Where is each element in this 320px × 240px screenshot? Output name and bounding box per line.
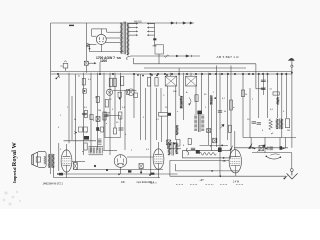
wire wire under box bbox=[170, 159, 229, 161]
inductor choke L11b bbox=[281, 119, 283, 129]
label value label 26 bbox=[252, 99, 254, 101]
footer marks bbox=[176, 183, 244, 185]
wire U1 right loop v bbox=[106, 29, 108, 32]
resistor R9b bbox=[113, 78, 116, 86]
junction row 148 dot bbox=[252, 147, 254, 149]
wire HT line bbox=[154, 23, 156, 46]
svg-text:3: 3 bbox=[112, 109, 114, 111]
junction rail dot c bbox=[149, 174, 151, 176]
wire drop 150 bbox=[150, 74, 152, 174]
wire col 179 bbox=[178, 68, 180, 96]
wire drop 280 bbox=[279, 138, 281, 147]
label +6V label bbox=[199, 179, 204, 182]
wire U1 to coil tap2 bbox=[106, 37, 121, 39]
wire sec tap r6 bbox=[147, 27, 155, 29]
wire link 104-110 bbox=[104, 112, 110, 114]
label value label 0 bbox=[78, 76, 81, 78]
junction bus joint 17 bbox=[234, 73, 236, 75]
wire sec tap r2 bbox=[129, 27, 138, 29]
wire gnd drop bbox=[291, 153, 293, 169]
svg-text:3: 3 bbox=[58, 127, 60, 129]
choke coil inside bbox=[199, 153, 216, 156]
resistor R11 bbox=[195, 95, 198, 102]
wire top link wire bbox=[113, 90, 137, 92]
label value label 33 bbox=[156, 119, 160, 121]
wire col 268 bbox=[267, 73, 269, 118]
resistor R16 bbox=[273, 92, 279, 95]
variable capacitor cap C16 bbox=[167, 140, 171, 145]
ground symbol bbox=[287, 171, 298, 179]
svg-text:1: 1 bbox=[213, 92, 215, 94]
curly symbol bbox=[186, 148, 189, 155]
wire mid bottom wire bbox=[176, 170, 239, 172]
wire trimmer stub bbox=[85, 65, 87, 73]
label value label 12 bbox=[116, 122, 119, 124]
wire col 263 bbox=[262, 73, 264, 95]
label value label 22 bbox=[205, 107, 207, 109]
wire U1 bottom lead bbox=[100, 44, 102, 51]
core L8 bbox=[89, 147, 104, 155]
capacitor C7 bbox=[218, 111, 222, 112]
tick TR on top rail bbox=[69, 24, 74, 26]
inductor speaker transformer La bbox=[48, 154, 50, 168]
label value label 24 bbox=[233, 107, 235, 109]
label value label 28 bbox=[283, 111, 285, 113]
junction rail dot a bbox=[57, 173, 59, 175]
label value label 37 bbox=[131, 150, 133, 152]
junction bus joint 26 bbox=[285, 73, 287, 75]
small box mid-left bbox=[101, 127, 104, 132]
junction bus joint 2 bbox=[99, 73, 101, 75]
wire B+ left stub up bbox=[133, 58, 135, 64]
label value label 7 bbox=[122, 107, 126, 109]
label value label 14 bbox=[163, 95, 165, 97]
svg-text:0,1: 0,1 bbox=[222, 98, 226, 100]
comp box c bbox=[134, 93, 138, 97]
inductor IF coil L8 bbox=[89, 148, 95, 154]
label V5 label bbox=[223, 160, 226, 163]
resistor R13 bbox=[228, 125, 231, 132]
svg-text:w: w bbox=[233, 107, 235, 109]
label value label 30 bbox=[262, 130, 264, 132]
wire vert 175 bbox=[175, 164, 177, 171]
wire col 91 bbox=[90, 73, 92, 152]
blob above T2 bbox=[197, 111, 201, 115]
wire trimmer arrow lead bbox=[88, 62, 94, 64]
wire col 166 foot bbox=[168, 148, 182, 150]
wire col 243 bbox=[242, 73, 244, 138]
label value label 16 bbox=[186, 91, 188, 94]
label AM BET bbox=[217, 55, 240, 59]
dark cap 2 bbox=[218, 148, 222, 153]
svg-text:x: x bbox=[177, 111, 179, 113]
svg-text:7: 7 bbox=[67, 107, 69, 109]
wire col 277 bbox=[276, 73, 278, 118]
resistor R1 bbox=[82, 79, 85, 86]
junction bus joint 19 bbox=[248, 73, 250, 75]
svg-text:a: a bbox=[106, 123, 108, 125]
blob row148 bbox=[280, 146, 283, 150]
svg-text:12: 12 bbox=[269, 88, 272, 90]
core La bbox=[50, 154, 52, 168]
wire U1 left lead bbox=[90, 44, 97, 46]
junction bus joint 13 bbox=[209, 73, 211, 75]
tube V4 IF tube bbox=[153, 149, 164, 169]
label bottom left label bbox=[43, 182, 64, 185]
label value label 39 bbox=[183, 145, 185, 147]
label value label 44 bbox=[58, 127, 60, 129]
svg-text:pF: pF bbox=[271, 133, 274, 135]
wire col 216 bbox=[215, 66, 217, 148]
junction solder dot d bbox=[156, 75, 158, 77]
arrow arrow row148 bbox=[282, 147, 285, 149]
resistor mains R0 bbox=[87, 43, 90, 47]
wire rail 3 bbox=[54, 177, 160, 179]
title Imperial Royal W bbox=[11, 142, 18, 183]
svg-text:5k: 5k bbox=[224, 111, 227, 113]
inductor output transformer L7 bbox=[176, 143, 178, 155]
inductor coil L10 bbox=[277, 97, 279, 104]
junction bus joint 7 bbox=[164, 73, 166, 75]
resistor R10 bbox=[119, 112, 122, 119]
svg-text:Imperial Royal W: Imperial Royal W bbox=[11, 142, 18, 183]
junction rail dot b bbox=[118, 173, 120, 175]
wire drop 140 bbox=[140, 74, 142, 140]
label value label 32 bbox=[287, 130, 290, 132]
wire left rail bbox=[50, 23, 52, 174]
label lamp label 70 bbox=[60, 66, 63, 68]
junction grid wire joint bbox=[221, 145, 223, 147]
resistor R8 bbox=[121, 77, 124, 86]
junction blob b bbox=[106, 169, 108, 171]
capacitor C11 bbox=[257, 123, 261, 124]
wire C5 stub bbox=[190, 73, 192, 76]
resistor R19 bbox=[188, 139, 191, 145]
tube V5 AF tube bbox=[229, 150, 241, 173]
inductor output transformer L6 bbox=[168, 143, 170, 156]
wire R0 bottom wire bbox=[89, 45, 91, 52]
svg-text:30: 30 bbox=[204, 94, 207, 96]
wire HT box to bus bbox=[158, 54, 160, 64]
wire U1 top lead bbox=[100, 29, 102, 35]
wire bus B+ mid bbox=[144, 67, 246, 69]
junction bus joint 5 bbox=[149, 73, 151, 75]
variable capacitor cap C6b bbox=[213, 138, 217, 143]
label value label 40 bbox=[210, 146, 212, 148]
label value label 2 bbox=[95, 97, 98, 99]
gnd circle bbox=[290, 169, 293, 172]
wire sec tap r1 bbox=[129, 23, 138, 25]
wire col 259 bbox=[258, 73, 260, 118]
label 1,4 label bbox=[233, 181, 240, 184]
label 1200 label bbox=[100, 59, 107, 63]
capacitor C1 bbox=[82, 113, 87, 114]
resistor R12 bbox=[159, 113, 168, 117]
wire col 211 bbox=[210, 105, 212, 151]
wire bus B+ upper bbox=[134, 63, 256, 65]
svg-text:0,5: 0,5 bbox=[84, 107, 88, 109]
wire drop 145 bbox=[144, 88, 146, 140]
arrow aerial 2 bbox=[186, 55, 192, 57]
label HM label bbox=[121, 181, 126, 184]
label value label 5 bbox=[98, 110, 101, 112]
label value label 21 bbox=[177, 111, 179, 113]
label value label 43 bbox=[74, 119, 77, 121]
wire col 125 bbox=[124, 90, 126, 150]
speaker bbox=[31, 151, 46, 167]
resistor R14 bbox=[230, 100, 233, 110]
label value label 3 bbox=[109, 99, 112, 101]
label value label 10 bbox=[86, 132, 88, 134]
svg-text:0,5: 0,5 bbox=[270, 109, 274, 111]
label value label 23 bbox=[224, 111, 227, 113]
wire V4 bottom lead bbox=[158, 169, 160, 177]
junction bus joint 14 bbox=[215, 73, 217, 75]
wire sec tap r7 bbox=[147, 30, 155, 32]
wire col 72 bbox=[71, 96, 73, 140]
svg-text:9: 9 bbox=[143, 117, 145, 119]
junction bottom long dot bbox=[219, 175, 221, 177]
wire col 104 bbox=[103, 73, 105, 150]
inductor coil L12 bbox=[268, 146, 273, 150]
arrow mains lead 1 bbox=[171, 22, 177, 24]
label mps label bbox=[137, 181, 155, 184]
HT tick bbox=[153, 45, 157, 47]
label value label 9 bbox=[106, 123, 108, 125]
tube U1 rectifier bbox=[96, 34, 106, 44]
inductor choke L11 bbox=[276, 119, 278, 129]
bottom arrow right bbox=[283, 175, 288, 180]
label value label 19 bbox=[222, 98, 226, 100]
svg-text:8: 8 bbox=[183, 145, 185, 147]
junction solder dot b bbox=[142, 75, 144, 77]
wire col 110 bbox=[109, 73, 111, 155]
capacitor C15 bbox=[191, 148, 195, 149]
wire stub right corner bbox=[256, 88, 265, 90]
junction blob a bbox=[94, 165, 96, 167]
svg-text:1M: 1M bbox=[98, 110, 101, 112]
junction dot right of C12 bbox=[265, 148, 267, 150]
wire bottom long wire bbox=[170, 175, 286, 177]
svg-text:1.4 W: 1.4 W bbox=[233, 181, 240, 184]
junction antenna junction bbox=[291, 72, 293, 74]
switch S1 bbox=[270, 154, 279, 155]
wire sec tap r3 bbox=[129, 30, 138, 32]
wire stub above bus bbox=[99, 62, 101, 73]
wire wire above IF bbox=[64, 140, 97, 142]
arrow diag mid bbox=[230, 145, 234, 151]
svg-text:2: 2 bbox=[205, 107, 207, 109]
svg-text:3: 3 bbox=[283, 111, 285, 113]
svg-text:2: 2 bbox=[267, 81, 269, 83]
comp box b bbox=[126, 90, 129, 95]
resistor R9 bbox=[109, 78, 112, 86]
wire drop 156 bbox=[155, 88, 157, 140]
svg-text:1k: 1k bbox=[245, 94, 248, 96]
wire bus main lower bbox=[51, 73, 293, 75]
label value label 29 bbox=[247, 119, 250, 121]
speckle corner bbox=[3, 191, 21, 206]
IF transformer T2 bbox=[194, 114, 204, 132]
svg-text:1200: 1200 bbox=[100, 59, 107, 63]
junction bus joint 18 bbox=[242, 73, 244, 75]
wire col 75 bbox=[74, 74, 76, 163]
box near C16 bbox=[177, 140, 181, 147]
junction bus joint 11 bbox=[195, 73, 197, 75]
svg-text:50: 50 bbox=[109, 99, 112, 101]
comp cluster a bbox=[118, 92, 122, 99]
junction choke box dot bbox=[223, 157, 225, 159]
svg-text:A: A bbox=[186, 91, 188, 94]
label value label 18 bbox=[213, 92, 215, 94]
wire col 166 bbox=[167, 86, 169, 149]
dark cap bbox=[196, 150, 200, 154]
wire drop from top rail bbox=[85, 23, 87, 61]
junction dot under C17 bbox=[140, 171, 142, 173]
junction bus joint 20 bbox=[252, 73, 254, 75]
label value label 42 bbox=[67, 107, 69, 109]
trim arrow mid bbox=[220, 124, 224, 128]
wire col 228 bbox=[227, 73, 229, 140]
variable capacitor cap C17 bbox=[139, 164, 143, 169]
label value label 34 bbox=[143, 117, 145, 119]
label value label 13 bbox=[125, 134, 127, 136]
HT junction blob bbox=[153, 38, 156, 40]
label value label 41 bbox=[60, 115, 62, 117]
inductor IF coil L9 bbox=[97, 148, 103, 154]
wire drop 285 bbox=[284, 138, 286, 149]
label value label 27 bbox=[270, 109, 274, 111]
svg-text:2: 2 bbox=[86, 132, 88, 134]
variable capacitor cap C12 bbox=[259, 146, 263, 151]
svg-text:AM 5 BET 1 Ω: AM 5 BET 1 Ω bbox=[217, 55, 240, 59]
junction bus joint 6 bbox=[157, 73, 159, 75]
junction bus joint 22 bbox=[262, 73, 264, 75]
lamp M box bbox=[63, 61, 68, 68]
wire vert left of box bbox=[169, 160, 171, 176]
wire V3 bottom lead bbox=[120, 167, 122, 174]
resistor R2 bbox=[90, 115, 93, 120]
wire drop 134 bbox=[133, 74, 135, 118]
resistor R5 bbox=[103, 112, 106, 120]
wire V4 top lead bbox=[158, 142, 160, 149]
svg-text:14F: 14F bbox=[121, 181, 126, 184]
wire U1 to coil tap3 bbox=[106, 42, 121, 44]
wire col 115 bbox=[114, 73, 116, 128]
cathode resistor marks bbox=[74, 131, 77, 134]
zigzag resistor R17 bbox=[269, 119, 273, 130]
small boxes bottom left bbox=[79, 127, 88, 132]
svg-text:10: 10 bbox=[247, 119, 250, 121]
module box bbox=[105, 115, 120, 137]
wire V5 top lead bbox=[234, 131, 236, 150]
wire spk drop right bbox=[58, 143, 60, 171]
label value label 38 bbox=[146, 149, 150, 151]
junction bus joint 15 bbox=[221, 73, 223, 75]
resistor R20 bbox=[105, 100, 108, 108]
wire U1 loop bottom stub bbox=[92, 35, 97, 37]
label cap label 2 bbox=[267, 81, 269, 83]
wire R12 drop bbox=[160, 116, 162, 142]
variable capacitor cap C6 bbox=[207, 129, 211, 133]
aerial start curve bbox=[127, 56, 131, 60]
variable capacitor cap X left bbox=[96, 117, 100, 122]
tap ticks left group bbox=[136, 23, 138, 36]
label cap label 12 bbox=[269, 88, 272, 90]
label value label 15 bbox=[173, 91, 177, 93]
wire V2 to V3 wire bbox=[72, 160, 85, 162]
label value label 11 bbox=[99, 130, 101, 132]
junction bus joint 1 bbox=[57, 73, 59, 75]
wire col 208 bbox=[207, 73, 209, 145]
resistor R4 bbox=[85, 111, 88, 118]
R12 terminal bbox=[168, 113, 171, 116]
junction bus joint 16 bbox=[227, 73, 229, 75]
wire sec tap r5 bbox=[147, 23, 155, 25]
inductor coil L14 bbox=[176, 125, 178, 135]
wire U1 loop left bbox=[91, 29, 93, 36]
label value label 20 bbox=[165, 107, 168, 109]
svg-text:wpm 3: wpm 3 bbox=[150, 183, 157, 185]
svg-text:14M23MH M 072 2: 14M23MH M 072 2 bbox=[43, 182, 64, 185]
antenna bbox=[288, 58, 294, 74]
wire U1 to coil tap1 bbox=[107, 31, 121, 33]
variable capacitor cap C14 bbox=[73, 163, 77, 170]
core L6 bbox=[172, 142, 173, 156]
resistor R15 bbox=[241, 90, 244, 97]
wire C4 stub bbox=[170, 73, 172, 76]
junction bus joint 25 bbox=[281, 73, 283, 75]
trimmer with dot bbox=[83, 89, 87, 93]
tube V2 output tube bbox=[61, 150, 72, 172]
inductor osc coil L4 bbox=[180, 96, 183, 108]
wire IF out wire bbox=[103, 149, 117, 151]
wire col 202 bbox=[201, 73, 203, 114]
label AW NO on top rail bbox=[134, 20, 142, 23]
svg-text:500: 500 bbox=[173, 91, 177, 93]
svg-text:1W: 1W bbox=[287, 130, 290, 132]
wire col 176 bbox=[175, 86, 177, 140]
label value label 4 bbox=[84, 107, 88, 109]
svg-text:C: C bbox=[163, 95, 165, 97]
switch arrow on bus bbox=[56, 75, 60, 79]
wire row 148 bbox=[234, 147, 288, 149]
wire rail 2 bbox=[57, 173, 178, 175]
junction solder dot e bbox=[166, 74, 168, 76]
label value label 8 bbox=[93, 120, 95, 122]
resistor R6 bbox=[84, 143, 87, 150]
wire V2 bottom lead bbox=[66, 172, 68, 178]
junction solder dot a bbox=[137, 74, 139, 76]
svg-text:3: 3 bbox=[210, 146, 212, 148]
svg-text:2x: 2x bbox=[74, 119, 77, 121]
wire bus main upper bbox=[51, 70, 293, 72]
variable capacitor tuning gang C4 bbox=[165, 76, 176, 86]
svg-text:2: 2 bbox=[252, 99, 254, 101]
svg-text:0,2: 0,2 bbox=[156, 119, 160, 121]
small circle device bbox=[106, 89, 112, 95]
wire sec tap r4 bbox=[129, 34, 138, 36]
arrow trimmer arrow bbox=[94, 62, 96, 64]
aerial pigtail bbox=[165, 55, 169, 57]
core L11 bbox=[278, 119, 280, 130]
inductor T1 secondary bbox=[127, 23, 129, 55]
resistor R7 bbox=[114, 128, 117, 134]
label value label 35 bbox=[60, 149, 62, 151]
label value label 25 bbox=[245, 94, 248, 96]
junction bus joint 12 bbox=[201, 73, 203, 75]
junction mid bottom dot bbox=[211, 170, 213, 172]
